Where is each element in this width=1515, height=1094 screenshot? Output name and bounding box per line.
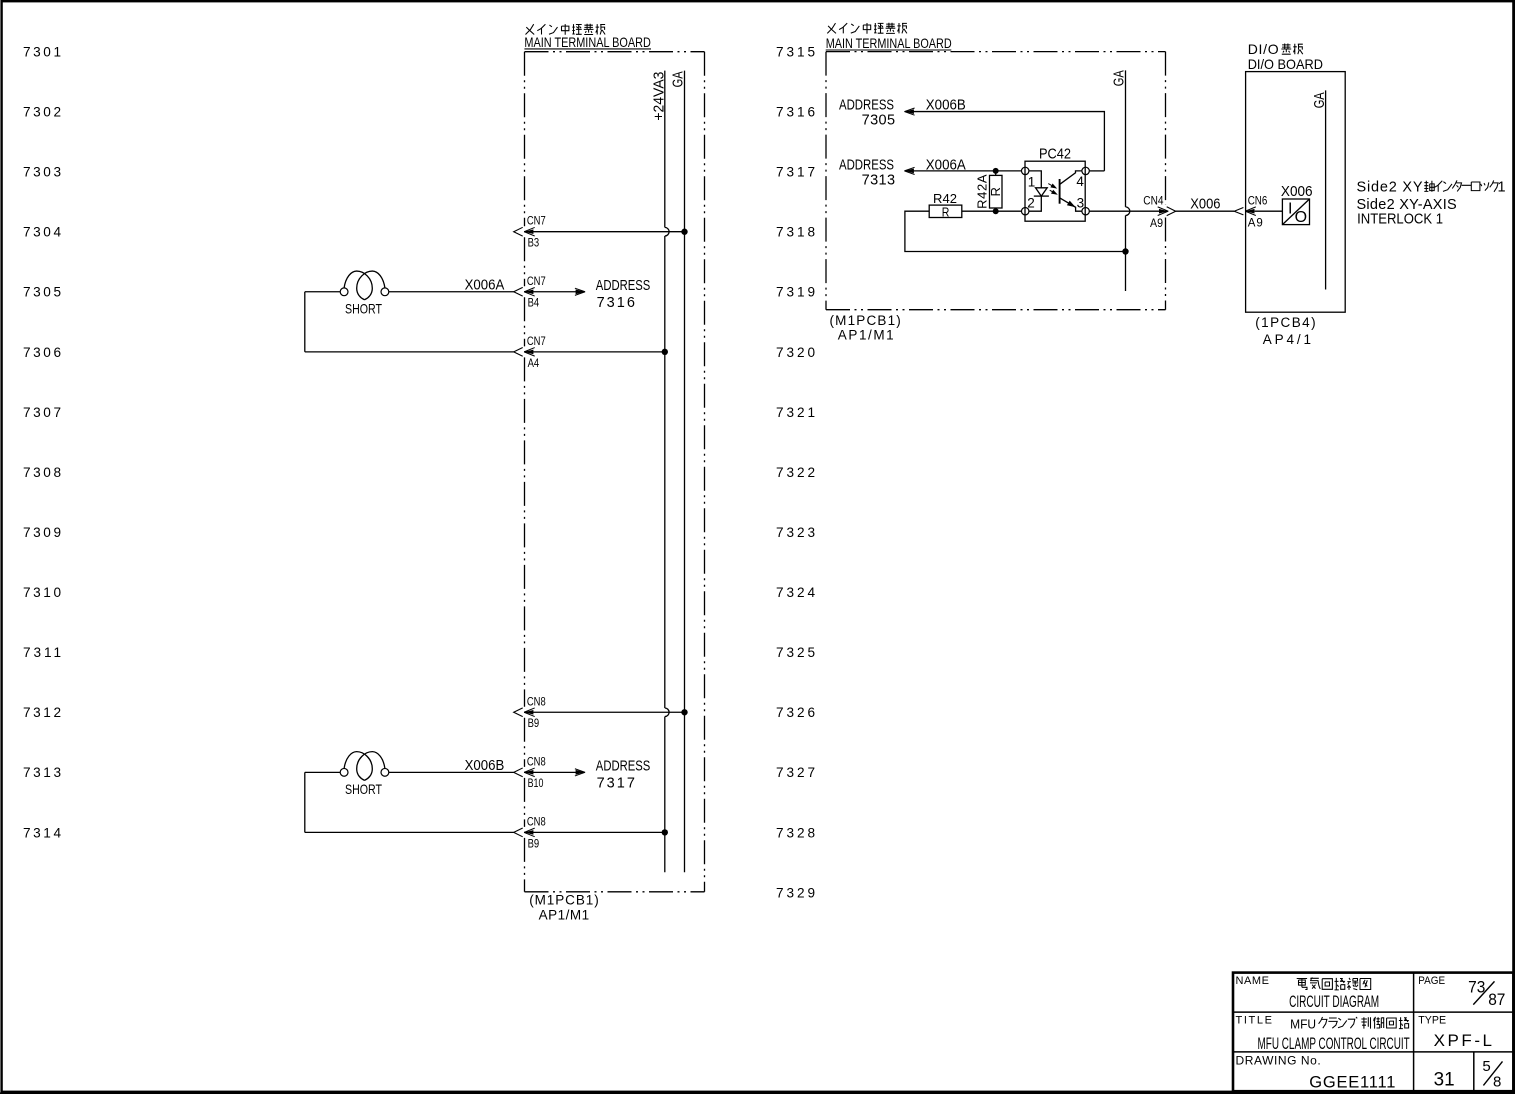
connector CN6: [1234, 208, 1243, 215]
junction on +24VA3 row 7314: [662, 829, 668, 835]
svg-text:CN7: CN7: [527, 276, 546, 288]
svg-text:INTERLOCK 1: INTERLOCK 1: [1357, 212, 1443, 228]
svg-text:PAGE: PAGE: [1418, 975, 1445, 987]
svg-text:R: R: [942, 204, 950, 219]
svg-text:CN8: CN8: [527, 756, 546, 768]
svg-text:5: 5: [1482, 1058, 1490, 1075]
middle board dashed boundary: [825, 52, 827, 310]
header underline (middle): [826, 49, 952, 51]
svg-text:CN8: CN8: [527, 696, 546, 708]
address arrow to 7317: [524, 771, 583, 773]
cable X006 between boards: [1175, 210, 1234, 212]
svg-text:MAIN TERMINAL BOARD: MAIN TERMINAL BOARD: [826, 35, 952, 51]
wire X006A from PC42 pin1 with arrow: [905, 170, 1021, 172]
PC42 LED: [1029, 171, 1041, 188]
svg-text:MFU CLAMP CONTROL CIRCUIT: MFU CLAMP CONTROL CIRCUIT: [1258, 1034, 1410, 1053]
svg-text:7317: 7317: [597, 776, 635, 792]
wire row 7313: SHORT to CN8-B10: [305, 771, 340, 773]
wire PC42 pin3 to CN4: [1089, 210, 1167, 212]
main terminal board (left) header: [526, 24, 606, 35]
svg-text:B4: B4: [528, 298, 540, 310]
svg-text:CN4: CN4: [1143, 196, 1164, 208]
svg-text:AP1/M1: AP1/M1: [539, 907, 590, 922]
svg-text:GGEE1111: GGEE1111: [1309, 1073, 1395, 1091]
wire row 7306: jumper return to CN7-A4: [304, 292, 306, 352]
header underline: [524, 48, 651, 50]
connector CN7 pin B4: [514, 287, 523, 296]
svg-text:1: 1: [1498, 180, 1506, 196]
jumper SHORT (upper): [340, 288, 348, 296]
address arrow to 7316: [524, 291, 583, 293]
svg-text:CN7: CN7: [527, 336, 546, 348]
svg-text:4: 4: [1076, 174, 1084, 189]
svg-text:8: 8: [1493, 1073, 1501, 1090]
svg-text:X006: X006: [1190, 196, 1220, 213]
svg-text:CIRCUIT DIAGRAM: CIRCUIT DIAGRAM: [1289, 992, 1379, 1011]
svg-text:B9: B9: [528, 838, 540, 850]
jumper SHORT (lower): [340, 768, 348, 776]
svg-text:ADDRESS: ADDRESS: [839, 97, 894, 113]
wire CN7-A4 to +24VA3 rail: [524, 351, 665, 353]
junction R42A bottom: [993, 208, 999, 214]
svg-text:MFU: MFU: [1290, 1017, 1316, 1032]
wire row 7314: jumper return to CN8-B9: [304, 772, 306, 832]
svg-text:CN8: CN8: [527, 816, 546, 828]
main terminal board (middle) header: [827, 23, 907, 34]
junction on +24VA3 row 7306: [662, 349, 668, 355]
svg-text:2: 2: [1027, 196, 1035, 211]
svg-text:PC42: PC42: [1039, 147, 1071, 163]
svg-text:DI/O BOARD: DI/O BOARD: [1248, 56, 1323, 72]
svg-text:B9: B9: [528, 718, 540, 730]
junction on GA row 7312: [681, 709, 687, 715]
connector CN8 pin B9 (row 7314): [514, 828, 523, 837]
svg-text:X006A: X006A: [465, 277, 505, 293]
title block: [1233, 973, 1513, 1092]
junction return on GA: [1122, 248, 1128, 254]
svg-text:X006B: X006B: [926, 97, 966, 113]
svg-text:A4: A4: [528, 358, 540, 370]
svg-text:CN7: CN7: [527, 216, 546, 228]
svg-text:NAME: NAME: [1236, 975, 1270, 987]
svg-text:R: R: [988, 187, 1003, 196]
PC42 phototransistor: [1059, 179, 1061, 204]
PC42 light arrows: [1048, 184, 1054, 187]
svg-text:SHORT: SHORT: [345, 781, 382, 797]
junction on GA row 7304: [681, 229, 687, 235]
svg-text:B3: B3: [528, 238, 540, 250]
svg-text:XPF-L: XPF-L: [1434, 1031, 1492, 1050]
svg-text:1: 1: [1028, 174, 1036, 189]
svg-text:87: 87: [1488, 991, 1505, 1009]
svg-text:A9: A9: [1248, 218, 1263, 230]
resistor R42: [929, 205, 962, 217]
connector CN8 pin B10: [514, 768, 523, 777]
connector CN8 pin B9 (row 7312): [514, 708, 523, 717]
svg-text:AP4/1: AP4/1: [1263, 332, 1311, 347]
svg-text:I: I: [1288, 200, 1292, 217]
svg-text:ADDRESS: ADDRESS: [839, 158, 894, 174]
junction R42A top: [993, 168, 999, 174]
svg-text:X006B: X006B: [465, 758, 505, 774]
svg-text:A9: A9: [1150, 218, 1163, 230]
wire row 7305: SHORT to CN7-B4: [305, 291, 340, 293]
wire CN7-B3 to GA rail: [524, 231, 684, 233]
svg-text:DI/O: DI/O: [1248, 41, 1279, 57]
svg-text:DRAWING No.: DRAWING No.: [1236, 1053, 1321, 1067]
svg-text:SHORT: SHORT: [345, 300, 382, 316]
svg-text:ADDRESS: ADDRESS: [596, 759, 651, 775]
connector CN7 pin B3: [514, 227, 523, 236]
svg-text:TITLE: TITLE: [1236, 1014, 1273, 1026]
svg-text:Side2 XY-AXIS: Side2 XY-AXIS: [1357, 197, 1457, 213]
svg-text:AP1/M1: AP1/M1: [838, 327, 894, 342]
svg-text:31: 31: [1434, 1069, 1455, 1090]
svg-text:7316: 7316: [597, 295, 635, 311]
DI/O board box: [1246, 72, 1346, 313]
svg-text:Side2 XY: Side2 XY: [1357, 180, 1423, 196]
svg-text:7313: 7313: [862, 173, 896, 189]
resistor R42A: [990, 175, 1003, 208]
svg-text:CN6: CN6: [1248, 196, 1268, 208]
main terminal board (left) dashed boundary: [524, 52, 526, 227]
svg-text:3: 3: [1077, 195, 1085, 210]
connector CN7 pin A4: [514, 347, 523, 356]
connector CN4: [1167, 207, 1176, 216]
svg-text:ADDRESS: ADDRESS: [596, 278, 651, 294]
wire R42 to PC42 pin2: [962, 210, 1022, 212]
svg-text:B10: B10: [528, 778, 544, 790]
svg-text:O: O: [1295, 209, 1307, 226]
svg-text:(M1PCB1): (M1PCB1): [529, 893, 599, 908]
wire return loop to GA: [905, 211, 1126, 251]
svg-text:TYPE: TYPE: [1418, 1014, 1446, 1026]
PC42 pin terminals: [1021, 167, 1028, 174]
svg-text:7305: 7305: [862, 113, 896, 129]
svg-text:MAIN TERMINAL BOARD: MAIN TERMINAL BOARD: [524, 34, 651, 50]
svg-text:(1PCB4): (1PCB4): [1255, 315, 1315, 330]
svg-text:X006: X006: [1281, 183, 1313, 200]
wire CN6 to I/O: [1255, 210, 1283, 212]
svg-text:(M1PCB1): (M1PCB1): [830, 313, 901, 328]
wire CN8-B9 to GA rail: [524, 711, 684, 713]
wire X006B from PC42 pin4 with arrow: [1089, 170, 1104, 172]
wire CN8-B9 to +24VA3 rail: [524, 831, 665, 833]
